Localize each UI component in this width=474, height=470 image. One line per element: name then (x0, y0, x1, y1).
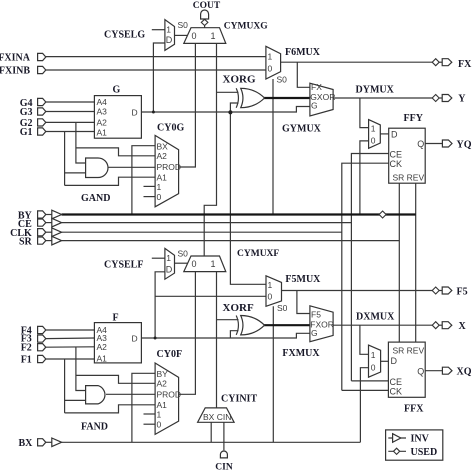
svg-text:0: 0 (157, 192, 162, 202)
svg-text:A2: A2 (97, 118, 108, 128)
wire carry chain CYMUXF output to CYMUXG input 1 (204, 43, 216, 256)
DXMUX mux (369, 345, 381, 377)
svg-text:FXINB: FXINB (0, 66, 30, 77)
svg-text:X: X (459, 321, 467, 332)
wire F3 to A3 (46, 337, 95, 340)
junction dot on F D line at CYSELF drop (154, 337, 157, 340)
input pin G2 (38, 119, 46, 126)
wire CE bus line (62, 222, 352, 224)
svg-text:F: F (113, 313, 119, 324)
svg-text:G1: G1 (20, 127, 33, 138)
output pin X (442, 322, 452, 329)
svg-text:COUT: COUT (193, 1, 221, 11)
wire DYMUX output to FFY D (380, 133, 388, 135)
input pin CE (38, 219, 46, 226)
wire X branch to DXMUX input 1 (360, 325, 369, 354)
input pin BY (38, 211, 46, 218)
wire CY0G constant 1 stub (144, 185, 156, 187)
wire G3 to A3 (46, 111, 95, 113)
wire FFX CK (342, 389, 389, 391)
wire FFY CK from CLK bus vertical (342, 163, 389, 390)
svg-text:FAND: FAND (81, 422, 108, 433)
output pin F5 (442, 287, 452, 294)
wire F5MUX output to F5 pin (282, 290, 433, 292)
input pin BX (38, 439, 46, 446)
GAND gate (86, 158, 108, 178)
CYINIT mux (198, 408, 235, 422)
input pin SR (38, 237, 46, 244)
wire CY0F BY input down to BX line (132, 373, 155, 442)
wire G LUT D output to FXMUX G input (141, 107, 310, 113)
svg-text:FXINA: FXINA (0, 53, 31, 64)
svg-text:CK: CK (390, 386, 403, 396)
junction dot on D line at CYSELG drop (152, 111, 155, 114)
svg-text:GAND: GAND (81, 193, 110, 204)
svg-text:D: D (391, 356, 398, 366)
CYMUXF mux (184, 256, 226, 272)
wire G D output down to F5MUX input 1 (230, 112, 266, 284)
svg-text:FX: FX (458, 59, 472, 70)
USED diamond on F5 line (432, 287, 439, 294)
svg-text:XORG: XORG (223, 74, 256, 86)
svg-text:SR REV: SR REV (393, 346, 425, 356)
svg-text:F5MUX: F5MUX (285, 274, 321, 285)
svg-text:Q: Q (417, 367, 424, 377)
input pin F1 (38, 355, 46, 362)
input pin G3 (38, 108, 46, 115)
svg-text:CYSELG: CYSELG (104, 29, 145, 40)
wire BY bus line (62, 213, 416, 215)
wire FXINA to F6MUX input 1 (46, 56, 266, 58)
wire FFX Q to XQ pin (425, 370, 442, 372)
svg-text:0: 0 (371, 363, 376, 373)
wire F4 to A4 (46, 329, 95, 331)
svg-text:CE: CE (390, 150, 403, 160)
legend box (386, 430, 443, 460)
wire DXMUX output to FFX D (381, 360, 389, 362)
legend INV symbol (388, 437, 406, 439)
svg-text:F2: F2 (21, 342, 32, 353)
wire CYINIT CIN input to CIN pin (223, 422, 225, 450)
USED diamond on FX line (432, 59, 439, 66)
inverter buffer SR (52, 236, 62, 245)
svg-text:D: D (166, 35, 173, 45)
svg-text:D: D (132, 107, 138, 117)
USED diamond on X line (432, 322, 439, 329)
svg-text:CIN: CIN (217, 412, 232, 422)
wire F2 branch to FAND input (76, 347, 86, 391)
wire F2 branch to CY0F A2 (76, 375, 155, 383)
output pin XQ (442, 367, 452, 374)
wire CY0G output to CYMUXG input 0 (179, 43, 196, 167)
svg-text:F6MUX: F6MUX (285, 47, 321, 58)
wire Y branch to DYMUX input 1 (360, 98, 369, 128)
wire SR vertical FFY to FFX (398, 183, 400, 342)
wire XORG bottom input from D line (230, 103, 238, 112)
svg-text:0: 0 (192, 31, 197, 41)
legend USED symbol (388, 450, 406, 452)
svg-text:G: G (113, 85, 121, 96)
svg-text:CE: CE (390, 377, 403, 387)
wire G2 to A2 (46, 121, 95, 123)
input pin FXINA (38, 53, 46, 60)
svg-text:Q: Q (417, 139, 424, 149)
input pin F4 (38, 326, 46, 333)
svg-text:1: 1 (166, 253, 171, 263)
wire F1 to A1 (46, 358, 95, 360)
svg-text:D: D (391, 129, 398, 139)
wire carry branch to XORG top input (217, 91, 239, 93)
svg-text:F5: F5 (311, 309, 321, 319)
wire G1 to GAND lower input (65, 172, 86, 174)
wire F5 branch to FXMUX F5 input (297, 291, 310, 314)
wire G1 branch under GAND to CY0G A1 (65, 177, 156, 185)
svg-text:CYSELF: CYSELF (104, 260, 143, 271)
wire X line to pin (439, 324, 442, 326)
G LUT box (94, 96, 141, 139)
wire GYMUX output to Y pin (333, 97, 432, 99)
wire F1 to FAND lower input (65, 399, 86, 401)
svg-text:F5: F5 (457, 286, 468, 297)
wire CY0F constant 1 stub (144, 413, 156, 415)
svg-text:FFX: FFX (404, 404, 424, 415)
wire FXMUX output to X pin (333, 324, 432, 326)
svg-text:S0: S0 (178, 249, 189, 259)
svg-text:GYMUX: GYMUX (282, 124, 322, 135)
wire F5MUX select S0 down to BX (272, 306, 274, 442)
input pin F3 (38, 335, 46, 342)
inverter buffer BY (52, 210, 62, 219)
svg-text:A1: A1 (97, 354, 108, 364)
svg-text:PROD: PROD (157, 162, 182, 172)
svg-text:1: 1 (371, 124, 376, 134)
XORG gate (236, 88, 264, 107)
svg-text:CYINIT: CYINIT (221, 394, 257, 405)
wire F D branch to F5MUX input 0 (155, 295, 266, 297)
svg-text:DXMUX: DXMUX (356, 312, 395, 323)
F5MUX mux (266, 276, 282, 307)
wire SR bus line (62, 240, 400, 242)
wire F2 to A2 (46, 346, 95, 348)
FFY flip-flop (389, 128, 426, 183)
svg-text:PROD: PROD (157, 389, 182, 399)
output pin Y (442, 95, 452, 102)
svg-text:CY0F: CY0F (157, 349, 183, 360)
svg-text:YQ: YQ (457, 139, 472, 150)
wire FXINB to F6MUX input 0 (46, 69, 266, 71)
input pin F2 (38, 344, 46, 351)
F6MUX mux (266, 46, 281, 79)
USED diamond on BY line (379, 211, 386, 218)
CY0F mux (155, 363, 181, 434)
svg-text:SR REV: SR REV (393, 173, 425, 183)
svg-text:A1: A1 (97, 127, 108, 137)
input pin FXINB (38, 66, 46, 73)
DYMUX mux (369, 120, 381, 149)
COUT diamond (201, 19, 208, 25)
svg-text:0: 0 (371, 136, 376, 146)
svg-text:BX: BX (203, 412, 215, 422)
svg-text:A2: A2 (157, 151, 168, 161)
svg-text:INV: INV (411, 434, 430, 445)
svg-text:BX: BX (157, 141, 169, 151)
wire CYSELG output to CYMUXG select (175, 34, 188, 36)
wire REV vertical FFY to FFX (415, 183, 417, 342)
svg-text:1: 1 (166, 25, 171, 35)
wire Y line to pin (439, 97, 442, 99)
svg-text:1: 1 (211, 259, 216, 269)
wire CYSELF input 1 stub (152, 257, 165, 259)
svg-text:S0: S0 (178, 20, 189, 30)
svg-text:G3: G3 (20, 107, 33, 118)
wire XORF output to FXMUX FXOR input (264, 324, 310, 326)
CY0G mux (155, 135, 181, 206)
input pin CLK (38, 229, 46, 236)
wire F6MUX select S0 down to BY (272, 79, 274, 215)
wire F1 branch under FAND to CY0F A1 (65, 405, 156, 413)
svg-text:G: G (311, 100, 318, 110)
wire CYSELG input 1 stub (152, 29, 165, 31)
wire G1 branch to GAND input (64, 132, 66, 186)
wire G1 to A1 (46, 131, 95, 133)
wire FFY CE from CE bus vertical (351, 154, 388, 381)
COUT pin (201, 10, 209, 19)
wire BY to DYMUX input 0 (360, 141, 369, 215)
FXMUX mux (310, 306, 334, 342)
XORF gate (236, 316, 264, 335)
svg-text:A3: A3 (97, 107, 108, 117)
svg-text:1: 1 (268, 52, 273, 62)
svg-text:FXMUX: FXMUX (282, 348, 320, 359)
output pin YQ (442, 140, 452, 147)
svg-text:1: 1 (211, 31, 216, 41)
wire CYINIT output to CYMUXF input 1 (216, 272, 218, 408)
wire CY0G constant 0 stub (144, 196, 156, 198)
input pin G4 (38, 98, 46, 105)
CYMUXG mux (184, 28, 226, 44)
inverter buffer CE (52, 218, 62, 227)
wire FX line to pin (439, 61, 442, 63)
FAND gate (86, 386, 105, 404)
svg-text:BY: BY (157, 369, 169, 379)
svg-text:G: G (311, 328, 318, 338)
wire carry branch to XORF top input (217, 319, 239, 321)
svg-text:F1: F1 (21, 354, 32, 365)
svg-text:CIN: CIN (215, 463, 233, 470)
svg-text:FX: FX (311, 82, 322, 92)
USED diamond on Y line (432, 95, 439, 102)
GYMUX mux (310, 82, 335, 116)
svg-text:BX: BX (18, 438, 33, 449)
svg-text:CK: CK (390, 159, 403, 169)
wire FAND output to CY0F PROD (106, 393, 155, 395)
wire F LUT D output to FXMUX G input (141, 333, 310, 338)
wire FX branch to GYMUX FX input (297, 62, 310, 87)
wire G2 branch to CY0G A2 (76, 148, 155, 156)
svg-text:1: 1 (157, 182, 162, 192)
svg-text:1: 1 (157, 409, 162, 419)
svg-text:Y: Y (458, 94, 466, 105)
CYSELG mux (165, 20, 175, 51)
wire CYSELF D input from F D line (155, 272, 165, 338)
wire COUT diamond to CYMUXG (204, 26, 206, 28)
svg-text:DYMUX: DYMUX (356, 85, 395, 96)
wire F1 branch to FAND input (64, 359, 66, 413)
svg-text:0: 0 (157, 419, 162, 429)
junction dot on D line at XORG branch (228, 110, 232, 114)
wire CYSELG D input from D line (153, 43, 165, 112)
svg-text:1: 1 (371, 350, 376, 360)
wire XORG output to GYMUX GXOR input (264, 97, 310, 99)
svg-text:A2: A2 (97, 342, 108, 352)
output pin FX (442, 59, 452, 66)
CYSELF mux (165, 248, 175, 279)
wire CYSELF output to CYMUXF select (175, 262, 188, 264)
svg-text:0: 0 (268, 292, 273, 302)
svg-text:USED: USED (411, 447, 438, 458)
wire CY0F constant 0 stub (144, 423, 156, 425)
svg-text:FFY: FFY (404, 113, 424, 124)
svg-text:D: D (132, 333, 138, 343)
wire F6MUX output to FX pin (281, 61, 433, 63)
wire CYINIT BX input to BX line (210, 422, 212, 442)
wire F5 line to pin (439, 290, 442, 292)
svg-text:S0: S0 (277, 303, 288, 313)
wire FFY Q to YQ pin (425, 143, 442, 145)
wire CY0G BX input down to BY line (132, 146, 155, 215)
FFX flip-flop (388, 342, 425, 397)
svg-text:CYMUXF: CYMUXF (237, 249, 279, 259)
input pin G1 (38, 128, 46, 135)
svg-text:D: D (166, 265, 173, 275)
wire CLK bus line (62, 231, 342, 233)
svg-text:1: 1 (268, 280, 273, 290)
inverter buffer BX (52, 438, 62, 447)
svg-text:SR: SR (19, 236, 33, 247)
svg-text:0: 0 (268, 64, 273, 74)
svg-text:A2: A2 (157, 379, 168, 389)
svg-text:CY0G: CY0G (157, 123, 184, 134)
wire GAND output to CY0G PROD (106, 166, 155, 168)
svg-text:0: 0 (192, 259, 197, 269)
CIN pin (220, 451, 227, 458)
svg-text:A4: A4 (97, 97, 108, 107)
wire G4 to A4 (46, 101, 95, 103)
svg-text:XQ: XQ (457, 367, 472, 378)
F LUT box (94, 323, 141, 364)
wire G2 branch to GAND input (76, 122, 86, 163)
svg-text:CYMUXG: CYMUXG (224, 21, 268, 31)
wire CY0F output to CYMUXF input 0 (179, 272, 196, 395)
svg-text:S0: S0 (277, 75, 288, 85)
wire BX to DXMUX input 0 (360, 368, 368, 443)
wire XORF bottom input from F D line (230, 331, 238, 338)
wire FFX CE (351, 380, 388, 382)
inverter buffer CLK (52, 228, 62, 237)
svg-text:XORF: XORF (223, 302, 254, 314)
wire BX bus line (62, 441, 361, 443)
